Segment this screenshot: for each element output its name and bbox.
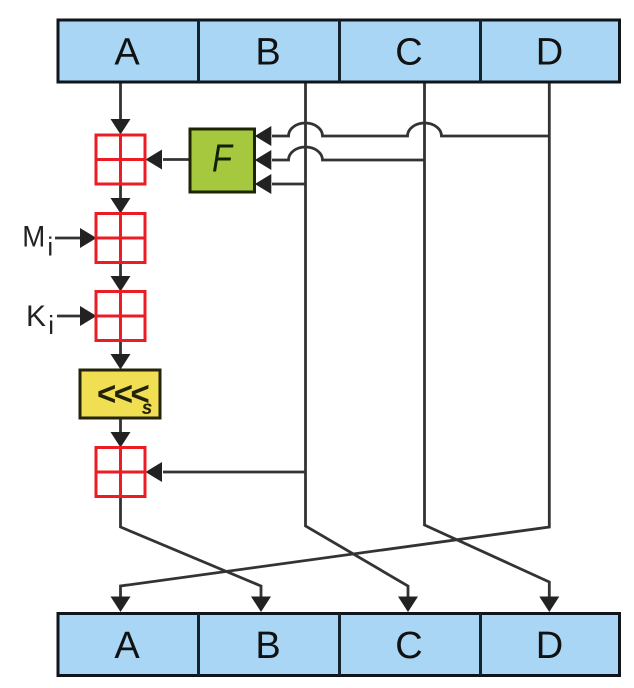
svg-text:D: D bbox=[536, 32, 563, 74]
svg-text:i: i bbox=[47, 232, 53, 262]
svg-text:B: B bbox=[255, 625, 280, 667]
svg-text:C: C bbox=[395, 32, 422, 74]
svg-text:F: F bbox=[212, 138, 234, 181]
svg-text:i: i bbox=[48, 310, 54, 340]
svg-text:C: C bbox=[395, 625, 422, 667]
svg-text:A: A bbox=[114, 32, 140, 74]
svg-text:D: D bbox=[536, 625, 563, 667]
svg-text:A: A bbox=[114, 625, 140, 667]
svg-text:B: B bbox=[255, 32, 280, 74]
svg-text:K: K bbox=[26, 300, 46, 333]
svg-text:M: M bbox=[22, 221, 45, 254]
svg-text:s: s bbox=[142, 398, 153, 419]
